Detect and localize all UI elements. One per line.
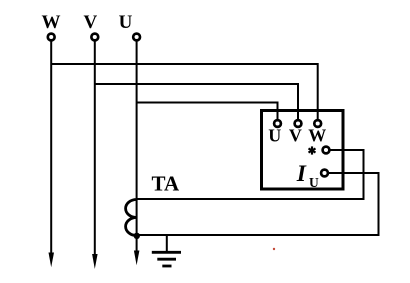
svg-text:V: V (84, 12, 98, 33)
node V terminal (91, 34, 98, 41)
svg-text:U: U (119, 12, 133, 33)
svg-text:U: U (309, 175, 319, 190)
junction TA secondary bottom (134, 233, 140, 239)
ground symbol (152, 235, 181, 266)
wire V branch to instrument (95, 84, 298, 120)
svg-text:I: I (296, 161, 307, 187)
node U label (119, 12, 133, 33)
red speck artifact (273, 248, 275, 250)
wire U branch to instrument (137, 103, 278, 120)
arrow phase U (134, 251, 140, 266)
wire phase V vertical (94, 41, 96, 255)
arrow phase V (92, 254, 98, 269)
node W label (42, 12, 61, 33)
node W terminal (48, 34, 55, 41)
terminal W of instrument (314, 120, 321, 127)
terminal I_U (321, 170, 328, 177)
arrow phase W (49, 253, 55, 268)
wire phase U vertical (136, 41, 138, 252)
instrument box U1 (262, 111, 344, 190)
svg-text:V: V (289, 126, 302, 146)
label I_U (296, 161, 319, 190)
svg-text:U: U (268, 126, 281, 146)
wire W branch to instrument (51, 64, 318, 120)
svg-text:W: W (308, 126, 326, 146)
node U terminal (133, 34, 140, 41)
transformer TA secondary winding (126, 200, 137, 236)
label W inside box (308, 126, 326, 146)
label TA (152, 172, 180, 196)
terminal current-in (asterisk) (323, 147, 330, 154)
node V label (84, 12, 98, 33)
wire from asterisk terminal to TA secondary top (137, 150, 364, 199)
svg-text:TA: TA (152, 172, 180, 196)
terminal V of instrument (295, 120, 302, 127)
wire from I_U terminal to TA secondary bottom (137, 173, 379, 235)
polarity asterisk marker (309, 146, 316, 154)
terminal U of instrument (274, 120, 281, 127)
wire phase W vertical (50, 41, 52, 254)
label U inside box (268, 126, 281, 146)
svg-text:W: W (42, 12, 61, 33)
label V inside box (289, 126, 302, 146)
